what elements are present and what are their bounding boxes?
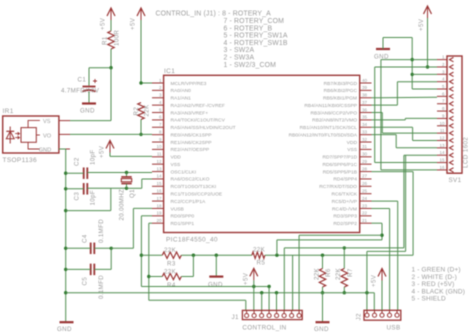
svg-text:2: 2: [159, 85, 162, 90]
capacitor C5 0.1MFD: [90, 264, 92, 276]
svg-text:LCD 1602: LCD 1602: [463, 137, 470, 168]
svg-text:22K: 22K: [313, 267, 320, 280]
svg-text:16: 16: [439, 165, 445, 170]
svg-text:RA3/AN3/VREF+: RA3/AN3/VREF+: [171, 110, 209, 116]
svg-text:Q1: Q1: [129, 189, 136, 198]
node C5 left: [64, 268, 67, 271]
wire LCD pin5 RW: [412, 88, 437, 90]
IR1 inner box: [21, 128, 36, 143]
ground rail bottom: [60, 321, 74, 323]
wire J1 pin3 drop: [260, 291, 263, 294]
svg-text:RD1/SPP1: RD1/SPP1: [171, 221, 195, 227]
pin 9 IC1 RE1/AN6/CK2SPP: [152, 141, 164, 143]
svg-text:100R: 100R: [114, 30, 121, 46]
pin GND IR1: [28, 142, 40, 149]
svg-text:20: 20: [156, 218, 162, 223]
wire RB4 pin37 to LCD pin4: [372, 104, 398, 106]
svg-text:25: 25: [362, 189, 368, 194]
pin 16 SV1: [437, 169, 447, 171]
wire IR1 VO to pin8 RE0: [70, 133, 152, 135]
pin 1 J1: [245, 314, 249, 318]
pin 8 J1: [297, 314, 301, 318]
svg-text:C1: C1: [78, 77, 87, 84]
resistor R5 22K: [252, 252, 265, 258]
wire R3 right to junction: [181, 254, 252, 256]
pin 26 IC1 RC7/RX/DT/SDO: [360, 185, 372, 187]
wire R6 bottom to ground: [322, 293, 324, 322]
svg-text:+5V: +5V: [130, 17, 137, 30]
svg-text:10pF: 10pF: [90, 190, 97, 206]
svg-text:VSS: VSS: [347, 147, 358, 153]
svg-text:VDD: VDD: [347, 140, 358, 146]
svg-text:PIC18F4550_40: PIC18F4550_40: [166, 237, 218, 244]
svg-text:RD3/SPP3: RD3/SPP3: [333, 214, 357, 220]
wire pin19 RD0 down: [141, 215, 152, 217]
wire J1 pin7 drop: [292, 255, 294, 310]
svg-text:OSC1/CLKI: OSC1/CLKI: [171, 169, 197, 175]
svg-text:RB2/AN8/INT2/VMO: RB2/AN8/INT2/VMO: [312, 118, 357, 124]
pin 18 IC1 VUSB: [152, 207, 164, 209]
svg-text:+5V: +5V: [100, 17, 107, 30]
pin 14 SV1: [437, 154, 447, 156]
pin 2 IC1 RA0/AN0: [152, 89, 164, 91]
svg-text:IR1: IR1: [3, 108, 14, 115]
node crystal bottom: [125, 187, 128, 190]
pin 4 J1: [267, 314, 271, 318]
pin 3 J1: [260, 314, 264, 318]
pin 15 SV1: [437, 162, 447, 164]
svg-text:VDD: VDD: [171, 155, 182, 161]
svg-text:RC0/T1OSO/T13CKI: RC0/T1OSO/T13CKI: [171, 184, 217, 190]
wire H251.4 to LCD vert: [367, 250, 406, 252]
wire J1 pin4 drop: [268, 287, 270, 311]
pin 4 J2: [387, 313, 391, 317]
pin 21 IC1 RD2/SPP2: [360, 222, 372, 224]
svg-text:33: 33: [362, 129, 368, 134]
pin 20 IC1 RD1/SPP1: [152, 222, 164, 224]
wire LCD pin3: [412, 73, 437, 75]
svg-text:16: 16: [156, 189, 162, 194]
svg-text:5: 5: [442, 84, 445, 89]
power +5V arrow (LCD): [424, 6, 432, 14]
node +5V J1 tap: [252, 285, 255, 288]
svg-text:4: 4: [159, 100, 162, 105]
pin 4 IC1 RA2/AN2/VREF-/CVREF: [152, 104, 164, 106]
op IC1 PIC18F4550 body: [164, 75, 360, 232]
wire RB1 pin34 to LCD pin12: [372, 126, 413, 128]
wire R5 right: [265, 254, 413, 256]
svg-text:RA5/AN4/SS/HLVDIN/C2OUT: RA5/AN4/SS/HLVDIN/C2OUT: [171, 125, 236, 131]
wire GND to LCD pin1/3: [382, 38, 384, 50]
wire USB pin2 drop: [373, 293, 375, 311]
wire rail tap to vertical: [66, 210, 111, 212]
node GND drop: [215, 254, 218, 257]
svg-text:6 - ROTERY_B: 6 - ROTERY_B: [224, 25, 273, 32]
svg-text:22K: 22K: [144, 104, 151, 117]
pin 10 IC1 RE2/AN7/OESPP: [152, 148, 164, 150]
wire RB0 pin33 to LCD pin13: [372, 134, 397, 136]
pin 40 IC1 RB7/KBI3/PGD: [360, 82, 372, 84]
wire H247.9 J1 pin6 to LCD D7 drop: [284, 247, 404, 249]
pin 12 IC1 VSS: [152, 163, 164, 165]
node VO junction: [139, 133, 142, 136]
capacitor C2 10pF: [83, 167, 85, 179]
svg-text:38: 38: [362, 93, 368, 98]
svg-text:R1: R1: [102, 36, 109, 45]
wire LCD pin14 stub: [404, 154, 437, 156]
resistor R1 100R: [108, 31, 114, 49]
pin 11 IC1 VDD: [152, 156, 164, 158]
ground R6: [316, 321, 330, 323]
ground mid: [209, 276, 223, 278]
wire node to C1: [89, 67, 111, 69]
wire GND bus: [66, 292, 375, 294]
svg-text:10: 10: [439, 121, 445, 126]
pin 24 IC1 RC5/D+/VP: [360, 200, 372, 202]
svg-text:RC2/CCP1/P1A: RC2/CCP1/P1A: [171, 199, 207, 205]
pin 9 SV1: [437, 117, 447, 119]
connector SV1 LCD 1602 body: [447, 56, 462, 173]
pin 35 IC1 RB2/AN8/INT2/VMO: [360, 119, 372, 121]
capacitor C3 10pF: [83, 183, 85, 195]
pin 28 IC1 RD5/SPP5/P1B: [360, 171, 372, 173]
pin 11 SV1: [437, 132, 447, 134]
svg-text:5 - SHIELD: 5 - SHIELD: [412, 296, 447, 303]
pin 5 IC1 RA3/AN3/VREF+: [152, 112, 164, 114]
svg-text:40: 40: [362, 78, 368, 83]
wire RD2 pin21 route: [372, 222, 383, 224]
pin 12 SV1: [437, 140, 447, 142]
svg-text:RC4/D-/VM: RC4/D-/VM: [332, 206, 357, 212]
svg-text:VS: VS: [43, 119, 51, 125]
resistor R4 22K: [149, 276, 163, 278]
svg-text:5: 5: [159, 107, 162, 112]
svg-text:37: 37: [362, 100, 368, 105]
svg-text:26: 26: [362, 181, 368, 186]
svg-text:3 - RED (+5V): 3 - RED (+5V): [412, 281, 455, 288]
svg-text:C5: C5: [82, 277, 89, 286]
ic IR1 TSOP1136 body: [3, 116, 59, 153]
capacitor C4 0.1MFD: [90, 243, 92, 255]
node C2 left: [64, 172, 67, 175]
wire LCD D7 vertical: [403, 155, 405, 248]
svg-text:30: 30: [362, 152, 368, 157]
svg-text:6: 6: [442, 91, 445, 96]
svg-text:10pF: 10pF: [90, 149, 97, 165]
svg-text:CONTROL_IN (J1) : 8 - ROTERY_A: CONTROL_IN (J1) : 8 - ROTERY_A: [156, 11, 272, 18]
pin 8 SV1: [437, 110, 447, 112]
svg-text:MCLR/VPP/RE3: MCLR/VPP/RE3: [171, 81, 207, 87]
svg-text:+5V: +5V: [243, 272, 250, 285]
pin 1 IC1 MCLR/VPP/RE3: [152, 82, 164, 84]
svg-text:RE0/AN5/CK1SPP: RE0/AN5/CK1SPP: [171, 132, 212, 138]
wire LCD pin2 VCC: [375, 66, 437, 68]
svg-text:6: 6: [159, 115, 162, 120]
node J1 pin4 tap: [267, 285, 270, 288]
ground under C1: [82, 102, 96, 104]
pin 6 J1: [282, 314, 286, 318]
svg-text:RD2/SPP2: RD2/SPP2: [333, 221, 357, 227]
svg-text:+5V: +5V: [99, 145, 106, 158]
wire C4 to VUSB pin18: [111, 247, 133, 249]
wire J1 pin2 drop: [253, 287, 255, 311]
pin 3 IC1 RA1/AN1: [152, 97, 164, 99]
svg-text:18: 18: [156, 203, 162, 208]
svg-text:11: 11: [440, 128, 445, 133]
wire RD1 net to J1 pin1: [149, 299, 246, 301]
wire RC4 pin23 to USB pin4: [372, 208, 390, 210]
node LCD pin3: [411, 73, 414, 76]
svg-text:4.7MFD/10V: 4.7MFD/10V: [61, 88, 100, 95]
pin 16 IC1 RC1/T1OSI/CCP2/UOE: [152, 193, 164, 195]
svg-text:RC7/RX/DT/SDO: RC7/RX/DT/SDO: [319, 184, 357, 190]
svg-text:8: 8: [159, 129, 162, 134]
wire C3 to crystal bottom: [87, 187, 126, 189]
wire IR1 GND to rail: [59, 148, 66, 150]
wire +5V to pin1 MCLR: [141, 82, 152, 84]
svg-text:RD0/SPP0: RD0/SPP0: [171, 214, 195, 220]
power +5V arrow (MCLR): [137, 8, 145, 16]
pin 37 IC1 RB4/AN11/KBI0/CSSPP: [360, 104, 372, 106]
IR1 photodiode symbol: [9, 127, 11, 144]
resistor R7 22K: [343, 248, 345, 269]
pin 33 IC1 RB0/AN12/INT0/FLT0/SDI/SDA: [360, 134, 372, 136]
svg-text:2 - SW3A: 2 - SW3A: [224, 55, 255, 62]
svg-text:34: 34: [362, 122, 368, 127]
wire C2 to OSC1 pin13: [87, 172, 152, 174]
svg-text:C2: C2: [74, 157, 81, 166]
pin 5 SV1: [437, 88, 447, 90]
wire R4 right up: [181, 276, 193, 278]
svg-text:RC1/T1OSI/CCP2/UOE: RC1/T1OSI/CCP2/UOE: [171, 192, 223, 198]
svg-text:4 - BLACK (GND): 4 - BLACK (GND): [412, 288, 466, 295]
svg-text:RD6/SPP6/P1C: RD6/SPP6/P1C: [322, 162, 357, 168]
wire C5 right up to C4 node: [110, 248, 112, 269]
wire J1 pin5 drop: [275, 291, 278, 294]
node C4 left: [64, 247, 67, 250]
svg-text:17: 17: [156, 196, 162, 201]
node R6 top: [321, 254, 324, 257]
svg-text:3: 3: [159, 93, 162, 98]
svg-text:11: 11: [157, 152, 162, 157]
pin 17 IC1 RC2/CCP1/P1A: [152, 200, 164, 202]
svg-text:+5V: +5V: [371, 274, 378, 287]
pin 39 IC1 RB6/KBI2/PGC: [360, 89, 372, 91]
resistor R3 22K: [141, 254, 162, 256]
svg-text:RA2/AN2/VREF-/CVREF: RA2/AN2/VREF-/CVREF: [171, 103, 225, 109]
svg-text:GND: GND: [314, 326, 329, 333]
wire pin28 down: [372, 171, 414, 173]
svg-text:TSOP1136: TSOP1136: [3, 157, 38, 164]
pin 7 IC1 RA5/AN4/SS/HLVDIN/C2OUT: [152, 126, 164, 128]
svg-text:RB4/AN11/KBI0/CSSPP: RB4/AN11/KBI0/CSSPP: [304, 103, 357, 109]
svg-text:3: 3: [442, 69, 445, 74]
pin 36 IC1 RB3/AN9/CCP2/VPO: [360, 112, 372, 114]
svg-text:15: 15: [439, 158, 445, 163]
svg-text:R5: R5: [257, 260, 266, 267]
capacitor C1 4.7MFD/10V: [83, 86, 96, 88]
svg-text:J2: J2: [356, 313, 363, 320]
svg-text:RE2/AN7/OESPP: RE2/AN7/OESPP: [171, 147, 210, 153]
node R7 bottom: [343, 291, 346, 294]
svg-text:7: 7: [442, 99, 445, 104]
pin 32 IC1 VDD: [360, 141, 372, 143]
pin 23 IC1 RC4/D-/VM: [360, 207, 372, 209]
svg-text:14: 14: [439, 150, 445, 155]
node R1/C1/VS junction: [109, 66, 112, 69]
svg-text:RC6/TX/CK: RC6/TX/CK: [331, 192, 357, 198]
svg-text:RC5/D+/VP: RC5/D+/VP: [332, 199, 357, 205]
power +5V arrow (USB): [378, 269, 386, 277]
svg-text:24: 24: [362, 196, 368, 201]
svg-text:23: 23: [362, 203, 368, 208]
connector J1 CONTROL_IN body: [242, 310, 302, 319]
svg-text:RA0/AN0: RA0/AN0: [171, 88, 192, 94]
pin 14 IC1 RA6/OSC2/CLKO: [152, 178, 164, 180]
pin 22 IC1 RD3/SPP3: [360, 215, 372, 217]
power +5V arrow (R1): [107, 8, 115, 16]
wire node down to IR1 VS: [110, 68, 112, 121]
svg-text:5 - ROTERY_SW1A: 5 - ROTERY_SW1A: [224, 33, 288, 40]
node R6 bottom: [321, 291, 324, 294]
pin 7 SV1: [437, 103, 447, 105]
pin 34 IC1 RB1/AN10/INT1/SCK/SCL: [360, 126, 372, 128]
wire C1 to GND: [88, 92, 90, 103]
svg-text:3 - SW2A: 3 - SW2A: [224, 47, 255, 54]
svg-text:RB1/AN10/INT1/SCK/SCL: RB1/AN10/INT1/SCK/SCL: [300, 125, 358, 131]
svg-text:SV1: SV1: [449, 177, 462, 184]
svg-text:RD5/SPP5/P1B: RD5/SPP5/P1B: [323, 169, 357, 175]
wire pin20 RD1 down: [149, 222, 152, 224]
svg-text:USB: USB: [387, 325, 401, 332]
svg-text:4: 4: [442, 77, 445, 82]
wire R2 bottom to VO line: [140, 120, 142, 135]
pin 3 SV1: [437, 73, 447, 75]
node C3 left: [64, 187, 67, 190]
node R4 left: [147, 275, 150, 278]
pin 10 SV1: [437, 125, 447, 127]
node R3/R4 join: [192, 254, 195, 257]
pin 7 J1: [290, 314, 294, 318]
svg-text:RA1/AN1: RA1/AN1: [171, 96, 192, 102]
pin 1 J2: [365, 313, 369, 317]
svg-text:RB5/KBI1/PGM: RB5/KBI1/PGM: [323, 96, 357, 102]
svg-text:0.1MFD: 0.1MFD: [98, 275, 105, 299]
node R5 right: [275, 254, 278, 257]
pin 15 IC1 RC0/T1OSO/T13CKI: [152, 185, 164, 187]
svg-text:VSS: VSS: [171, 162, 182, 168]
wire RC5 pin24 to USB pin5: [372, 200, 398, 202]
svg-text:C3: C3: [74, 192, 81, 201]
svg-text:CONTROL_IN: CONTROL_IN: [242, 325, 286, 332]
svg-text:RB6/KBI2/PGC: RB6/KBI2/PGC: [324, 88, 358, 94]
node R7 top: [343, 246, 346, 249]
pin VO IR1: [36, 134, 40, 136]
svg-text:+5V: +5V: [418, 18, 425, 31]
svg-text:27: 27: [362, 174, 368, 179]
wire R1 bottom to node: [110, 49, 112, 68]
svg-text:31: 31: [362, 144, 368, 149]
svg-text:13: 13: [439, 143, 445, 148]
node GND bus tap: [64, 291, 67, 294]
wire +5V to pin11 VDD: [110, 155, 152, 157]
svg-text:9: 9: [442, 113, 445, 118]
wire RB3 pin36 to LCD pin11: [372, 112, 383, 114]
pin 2 J2: [372, 313, 376, 317]
wire GND down to LED- pin16: [380, 60, 382, 170]
pin 4 SV1: [437, 81, 447, 83]
svg-text:19: 19: [156, 211, 162, 216]
svg-text:GND: GND: [39, 147, 51, 153]
resistor R6 22K: [322, 255, 324, 268]
svg-text:1: 1: [159, 78, 162, 83]
svg-text:21: 21: [362, 218, 368, 223]
pin 27 IC1 RD4/SPP4: [360, 178, 372, 180]
svg-text:VUSB: VUSB: [171, 206, 184, 212]
pin 3 J2: [380, 313, 384, 317]
pin VS IR1: [28, 120, 40, 127]
svg-text:7 - ROTERY_COM: 7 - ROTERY_COM: [224, 18, 285, 25]
connector J2 USB body: [364, 310, 401, 320]
svg-text:2 - WHITE (D-): 2 - WHITE (D-): [412, 274, 457, 281]
svg-text:RB0/AN12/INT0/FLT0/SDI/SDA: RB0/AN12/INT0/FLT0/SDI/SDA: [289, 132, 358, 138]
crystal Q1 20.00MHz: [126, 173, 128, 177]
svg-text:9: 9: [159, 137, 162, 142]
pin 13 IC1 OSC1/CLKI: [152, 171, 164, 173]
node MCLR junction: [139, 81, 142, 84]
node LCD pin2 +5V: [426, 65, 429, 68]
pin 5 J1: [275, 314, 279, 318]
svg-text:1 - SW2/3_COM: 1 - SW2/3_COM: [224, 62, 277, 69]
wire USB pin1 vertical: [366, 251, 368, 310]
pin 30 IC1 RD7/SPP7/P1D: [360, 156, 372, 158]
wire RB2 pin35 to LCD pin9: [372, 119, 406, 121]
svg-text:22K: 22K: [164, 247, 177, 254]
svg-text:14: 14: [156, 174, 162, 179]
svg-text:39: 39: [362, 85, 368, 90]
power +5V arrow (J1): [250, 268, 258, 276]
wire LCD pin1: [381, 59, 437, 61]
resistor R2 22K: [138, 103, 144, 120]
wire J1 pin8 branch: [380, 234, 383, 237]
svg-text:22: 22: [362, 211, 368, 216]
svg-text:R7: R7: [347, 268, 354, 277]
svg-text:28: 28: [362, 166, 368, 171]
pin 5 J2: [395, 313, 399, 317]
svg-text:7: 7: [159, 122, 162, 127]
pin 2 SV1: [437, 66, 447, 68]
node LCD pin1: [411, 58, 414, 61]
svg-text:2: 2: [442, 62, 445, 67]
pin 2 J1: [252, 314, 256, 318]
svg-text:GND: GND: [208, 282, 223, 289]
svg-text:RB3/AN9/CCP2/VPO: RB3/AN9/CCP2/VPO: [311, 110, 358, 116]
pin 31 IC1 VSS: [360, 148, 372, 150]
wire crystal bottom to pin14 OSC2: [127, 187, 142, 189]
svg-text:RD7/SPP7/P1D: RD7/SPP7/P1D: [322, 155, 357, 161]
svg-text:RA4/T0CKI/C1OUT/RCV: RA4/T0CKI/C1OUT/RCV: [171, 118, 226, 124]
svg-text:RE1/AN6/CK2SPP: RE1/AN6/CK2SPP: [171, 140, 212, 146]
node R3 left: [140, 254, 143, 257]
wire to ground: [215, 255, 217, 276]
pin 8 IC1 RE0/AN5/CK1SPP: [152, 134, 164, 136]
svg-text:1: 1: [442, 55, 445, 60]
svg-text:R3: R3: [167, 261, 176, 268]
svg-text:8: 8: [442, 106, 445, 111]
svg-text:R4: R4: [167, 282, 176, 289]
wire +5V down to LED+ pin15: [374, 67, 376, 163]
svg-text:RD4/SPP4: RD4/SPP4: [333, 177, 357, 183]
